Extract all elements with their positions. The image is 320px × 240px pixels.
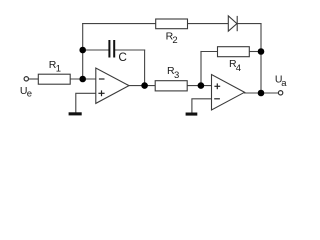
- junction dot node D (R3/R4/U2+): [198, 82, 205, 89]
- svg-text:1: 1: [56, 63, 61, 74]
- wire op-amp U1 output to R3: [129, 85, 155, 87]
- svg-text:4: 4: [236, 63, 241, 74]
- terminal Ue: [24, 77, 28, 81]
- wire R4 right lead: [249, 51, 261, 53]
- junction dot node E (R4 right): [258, 48, 265, 55]
- wire U2 minus input stub: [192, 99, 212, 113]
- svg-text:e: e: [27, 88, 32, 99]
- junction dot node F (output): [258, 90, 265, 97]
- wire left vertical feedback riser: [82, 24, 84, 79]
- op-amp U2 plus sign: [214, 83, 220, 89]
- wire right vertical drop: [260, 24, 262, 93]
- resistor R3: [155, 81, 187, 91]
- terminal Ua: [278, 91, 282, 95]
- wire R4 left lead: [201, 51, 218, 53]
- op-amp U1 minus sign: [99, 78, 105, 80]
- ground GND2: [186, 113, 198, 116]
- op-amp U2: [212, 75, 245, 111]
- wire U1 plus input stub: [76, 93, 96, 112]
- ground GND1: [69, 112, 82, 115]
- wire capacitor right lead: [115, 49, 145, 51]
- wire U2 output to Ua: [245, 92, 279, 94]
- junction dot node C (U1 out): [141, 82, 148, 89]
- diode D1: [228, 16, 237, 31]
- junction dot node B (cap branch): [79, 47, 86, 54]
- junction dot node A (R1/U1- ): [79, 76, 86, 83]
- op-amp U1: [96, 68, 129, 103]
- wire input to R1: [29, 78, 38, 80]
- svg-text:a: a: [281, 78, 287, 89]
- resistor R2: [156, 19, 188, 29]
- wire capacitor left lead: [83, 49, 109, 51]
- wire R3 to op-amp U2 plus input: [187, 85, 211, 87]
- resistor R4: [218, 47, 250, 57]
- svg-text:2: 2: [172, 35, 177, 46]
- wire R1 to op-amp U1 minus input: [70, 78, 96, 80]
- op-amp U1 plus sign: [98, 90, 104, 96]
- wire R2 to diode: [188, 23, 229, 25]
- wire capacitor branch drop: [144, 50, 146, 86]
- wire R4 left branch drop: [200, 52, 202, 86]
- capacitor C plates: [108, 40, 115, 58]
- wire top feedback to R2: [83, 23, 156, 25]
- wire diode to right corner: [237, 23, 261, 25]
- resistor R1: [38, 74, 70, 84]
- svg-text:C: C: [118, 50, 127, 64]
- op-amp U2 minus sign: [214, 98, 220, 100]
- svg-text:3: 3: [174, 70, 179, 81]
